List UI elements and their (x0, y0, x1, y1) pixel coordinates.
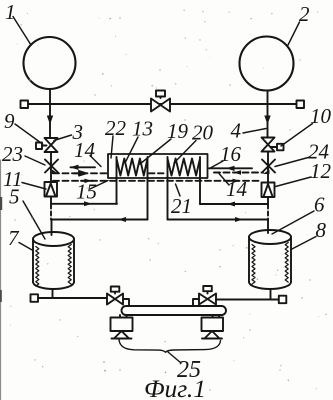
left support box (111, 318, 133, 332)
bottom right wire (216, 299, 279, 301)
svg-text:13: 13 (132, 117, 153, 141)
label leader lines (13, 17, 316, 251)
leader 10 (281, 124, 313, 147)
svg-text:9: 9 (4, 109, 15, 133)
right support neck (213, 315, 220, 318)
filter 12 (262, 183, 275, 198)
valve 3 (left shutoff) (45, 138, 58, 152)
wire into tank 8 (267, 220, 269, 234)
left column wire (50, 152, 52, 183)
cooler tube 25 (122, 306, 227, 315)
exchanger port wires (116, 177, 118, 204)
coil 20 (168, 157, 201, 177)
svg-text:19: 19 (167, 119, 189, 143)
bottom right elbow (193, 299, 199, 306)
left end square fitting (21, 101, 29, 109)
valve 23 (left X valve) (45, 160, 58, 173)
svg-text:23: 23 (2, 142, 23, 166)
leader 19 (140, 139, 171, 164)
leader 13 (126, 137, 139, 162)
svg-text:10: 10 (310, 104, 332, 128)
svg-text:20: 20 (192, 121, 214, 145)
valve 24 (right X valve) (262, 160, 275, 173)
leader 15 (90, 181, 108, 190)
svg-text:21: 21 (171, 194, 192, 218)
wire from sphere 1 down (49, 89, 51, 138)
valve 10 (right shutoff) (262, 138, 275, 152)
left dashed column segment (50, 205, 52, 220)
leader 11 (22, 183, 46, 190)
tank 7 shell (33, 239, 74, 282)
leader 7 (19, 243, 33, 251)
tank 8 shell (249, 237, 291, 282)
flow arrow on upper dashed left (74, 171, 86, 176)
wire from sphere 2 down (267, 91, 269, 138)
wire below filter 11 (50, 197, 52, 205)
svg-text:14: 14 (74, 138, 96, 162)
svg-text:16: 16 (220, 142, 242, 166)
sphere vessel 2 (240, 37, 294, 91)
top manifold wire (27, 103, 297, 105)
flow arrow on lower dashed right (226, 180, 239, 182)
svg-text:15: 15 (76, 180, 97, 204)
tank 8 bellows (252, 245, 255, 285)
right dashed column segment (267, 205, 269, 220)
wire below filter 12 (267, 197, 269, 205)
leader 20 (174, 141, 196, 164)
right return wire from exchanger (168, 219, 269, 221)
right support box (202, 318, 224, 332)
leader 14 right (219, 174, 229, 186)
right end square fitting (297, 101, 305, 109)
crossover valve (151, 99, 170, 112)
tank 7 outlet (52, 289, 54, 298)
flow arrow down left (47, 116, 53, 125)
svg-text:6: 6 (314, 193, 325, 217)
left return wire from exchanger (51, 219, 148, 221)
flow arrow on upper dashed right (233, 170, 241, 175)
bottom left valve (107, 294, 123, 305)
left feed wire to exchanger (51, 203, 117, 205)
right column wire (267, 152, 269, 183)
bottom left wire (38, 297, 107, 299)
flow arrow solid left (line 14) (71, 166, 96, 168)
coil 13 (117, 157, 148, 177)
scan speckles (109, 18, 110, 19)
leader 23 (25, 156, 45, 165)
tank 8 outlet (270, 289, 272, 300)
scan edge marks (0, 160, 2, 400)
leader 3 (54, 135, 72, 141)
tank 7 bellows (36, 247, 39, 287)
leader 21 (176, 184, 181, 196)
leader 4 (243, 129, 266, 134)
filter 11 (45, 182, 58, 197)
svg-text:7: 7 (8, 226, 20, 250)
dashed pilot line 15 lower (53, 180, 262, 182)
leader 22 (111, 136, 113, 158)
flow arrow down right (264, 116, 270, 125)
bottom left elbow (123, 299, 129, 306)
pipe 16 stub with arrow (209, 167, 252, 169)
leader 6 (272, 211, 314, 234)
leader 8 (291, 237, 316, 250)
brace 25 (119, 340, 221, 353)
wire into tank 7 (51, 220, 53, 236)
svg-text:14: 14 (226, 177, 248, 201)
right support base (202, 331, 222, 339)
leader 5 (23, 201, 45, 239)
leader 16 (210, 161, 224, 169)
bottom left square fitting (31, 294, 39, 302)
leader 1 (13, 17, 31, 46)
leader 12 (276, 177, 312, 187)
valve 3 actuator (42, 145, 47, 147)
leader 14 left (90, 156, 101, 167)
svg-text:12: 12 (310, 159, 332, 183)
svg-text:22: 22 (105, 116, 127, 140)
valve 10 actuator (271, 146, 277, 148)
svg-text:1: 1 (5, 0, 16, 24)
heat exchanger shell (108, 154, 208, 178)
right feed wire to exchanger (200, 203, 268, 205)
leader 25 (168, 352, 181, 363)
bottom right square fitting (279, 296, 287, 304)
dashed pilot line between coils (149, 172, 167, 174)
svg-text:8: 8 (316, 218, 327, 242)
leader 24 (275, 157, 310, 167)
left support base (112, 331, 132, 339)
svg-text:Фиг.1: Фиг.1 (144, 374, 206, 400)
svg-text:2: 2 (299, 2, 310, 26)
svg-text:5: 5 (9, 185, 20, 209)
dashed pilot line 14 upper (53, 172, 108, 174)
left support neck (120, 315, 127, 318)
svg-text:4: 4 (231, 119, 242, 143)
sphere vessel 1 (24, 37, 76, 89)
leader 9 (15, 124, 43, 144)
flow arrow on lower dashed left (81, 180, 93, 182)
leader 2 (288, 22, 300, 45)
bottom right valve (199, 294, 216, 305)
